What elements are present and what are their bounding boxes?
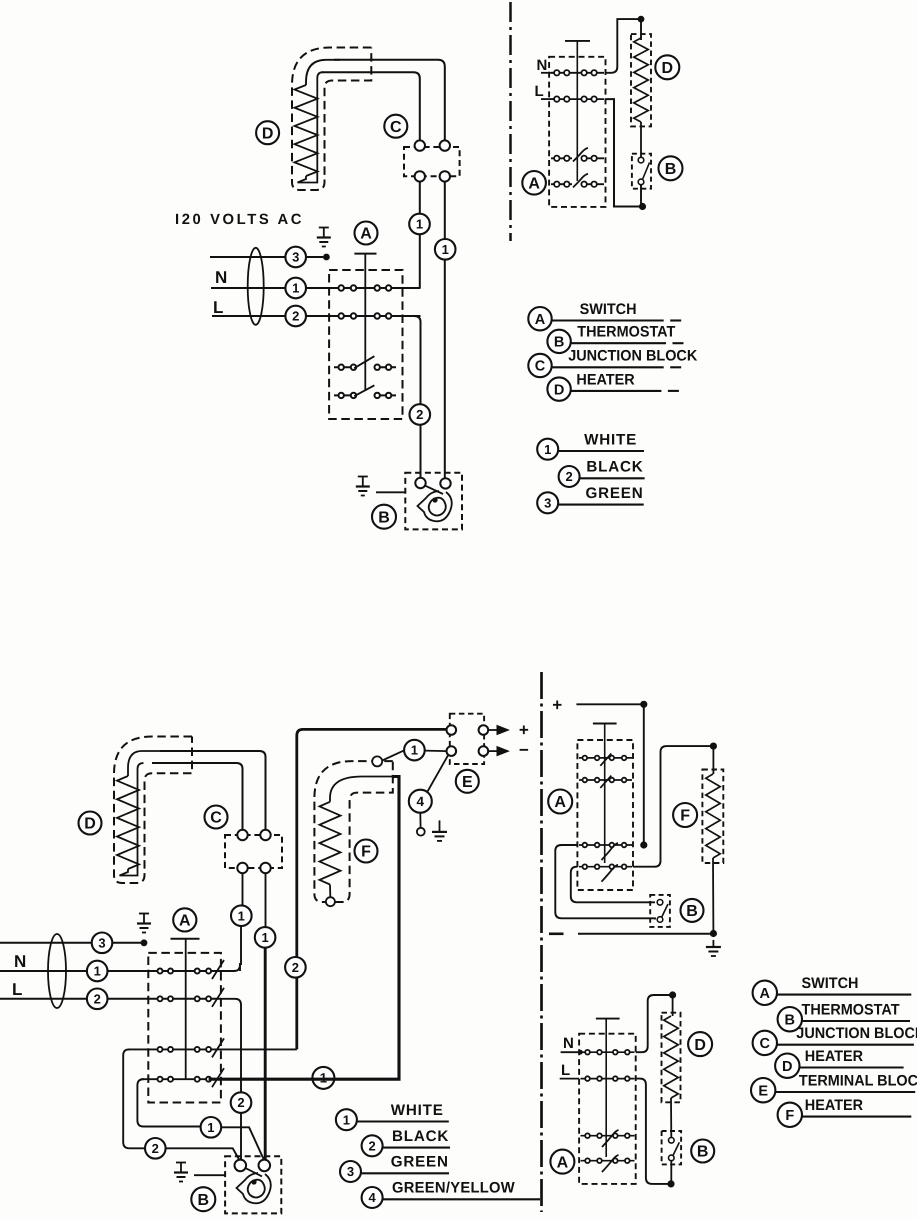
svg-text:D: D (694, 1037, 706, 1054)
svg-text:1: 1 (261, 930, 268, 945)
svg-text:L: L (213, 298, 223, 317)
svg-text:A: A (528, 175, 540, 192)
svg-text:GREEN/YELLOW: GREEN/YELLOW (392, 1180, 515, 1197)
svg-text:C: C (390, 119, 402, 136)
svg-text:A: A (360, 226, 372, 243)
svg-text:SWITCH: SWITCH (802, 975, 859, 992)
svg-text:2: 2 (368, 1138, 375, 1153)
svg-text:B: B (785, 1012, 795, 1028)
svg-text:3: 3 (544, 495, 551, 510)
svg-text:BLACK: BLACK (586, 459, 643, 476)
svg-text:B: B (697, 1144, 709, 1161)
svg-text:THERMOSTAT: THERMOSTAT (802, 1001, 901, 1018)
svg-text:A: A (554, 794, 566, 811)
svg-text:THERMOSTAT: THERMOSTAT (577, 324, 676, 341)
svg-text:D: D (782, 1059, 792, 1075)
svg-text:N: N (537, 57, 548, 74)
svg-text:C: C (210, 810, 222, 827)
svg-text:4: 4 (368, 1190, 376, 1205)
svg-text:1: 1 (238, 908, 245, 923)
svg-text:B: B (378, 509, 390, 526)
svg-text:F: F (361, 844, 371, 861)
svg-text:L: L (12, 980, 22, 999)
svg-text:1: 1 (94, 964, 101, 979)
svg-text:3: 3 (347, 1164, 354, 1179)
svg-text:N: N (563, 1035, 574, 1052)
svg-text:D: D (262, 125, 274, 142)
svg-text:BLACK: BLACK (392, 1128, 449, 1145)
svg-text:JUNCTION BLOCK: JUNCTION BLOCK (796, 1025, 917, 1042)
svg-text:A: A (760, 986, 771, 1002)
svg-text:B: B (198, 1192, 210, 1209)
svg-text:−: − (519, 741, 529, 760)
svg-text:C: C (535, 359, 546, 375)
svg-text:E: E (462, 774, 473, 791)
svg-text:1: 1 (292, 281, 299, 296)
svg-text:3: 3 (98, 935, 105, 950)
svg-text:D: D (84, 816, 96, 833)
svg-text:C: C (760, 1036, 771, 1052)
svg-text:B: B (686, 903, 698, 920)
svg-text:2: 2 (292, 309, 299, 324)
svg-text:GREEN: GREEN (391, 1154, 449, 1171)
svg-text:JUNCTION BLOCK: JUNCTION BLOCK (568, 348, 697, 365)
svg-text:3: 3 (292, 250, 299, 265)
svg-text:1: 1 (207, 1120, 214, 1135)
svg-text:HEATER: HEATER (576, 371, 634, 388)
svg-text:1: 1 (343, 1112, 350, 1127)
svg-text:1: 1 (411, 743, 418, 758)
svg-text:HEATER: HEATER (805, 1097, 863, 1114)
svg-text:2: 2 (292, 960, 299, 975)
svg-text:D: D (662, 60, 674, 77)
svg-text:N: N (14, 952, 26, 971)
svg-text:F: F (785, 1108, 794, 1124)
svg-text:1: 1 (544, 442, 551, 457)
svg-text:E: E (758, 1083, 768, 1099)
svg-text:A: A (535, 312, 546, 328)
svg-text:4: 4 (417, 794, 425, 809)
svg-text:GREEN: GREEN (586, 485, 644, 502)
svg-text:1: 1 (442, 242, 449, 257)
svg-text:1: 1 (416, 217, 423, 232)
svg-text:+: + (552, 695, 562, 714)
svg-text:2: 2 (94, 991, 101, 1006)
svg-text:SWITCH: SWITCH (580, 301, 637, 318)
svg-text:N: N (215, 268, 227, 287)
svg-text:A: A (179, 913, 191, 930)
svg-text:L: L (561, 1062, 570, 1079)
svg-text:B: B (665, 161, 677, 178)
svg-text:1: 1 (320, 1071, 328, 1086)
svg-text:L: L (535, 83, 544, 100)
svg-text:WHITE: WHITE (391, 1102, 444, 1119)
svg-text:D: D (554, 382, 564, 398)
svg-text:2: 2 (565, 469, 572, 484)
svg-text:HEATER: HEATER (805, 1048, 863, 1065)
svg-text:A: A (557, 1154, 569, 1171)
svg-text:I20 VOLTS AC: I20 VOLTS AC (175, 212, 304, 228)
svg-text:B: B (554, 335, 564, 351)
svg-text:2: 2 (152, 1141, 159, 1156)
svg-text:2: 2 (416, 407, 423, 422)
svg-text:WHITE: WHITE (584, 431, 637, 448)
svg-text:TERMINAL BLOCK: TERMINAL BLOCK (799, 1072, 917, 1089)
svg-text:+: + (519, 721, 529, 740)
svg-text:F: F (680, 808, 690, 825)
svg-text:2: 2 (237, 1095, 244, 1110)
